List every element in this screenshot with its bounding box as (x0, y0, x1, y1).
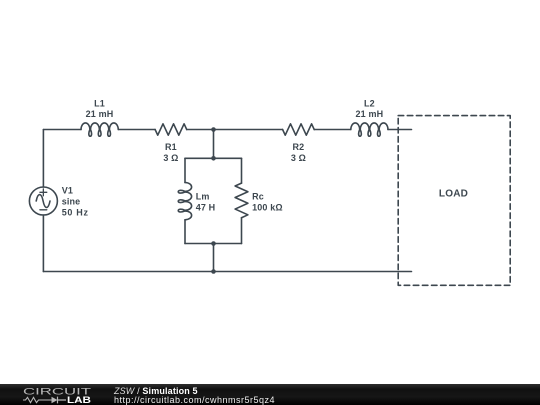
svg-text:LAB: LAB (67, 395, 91, 405)
svg-text:Lm: Lm (196, 191, 210, 201)
svg-text:21 mH: 21 mH (356, 109, 384, 119)
svg-text:sine: sine (62, 197, 81, 207)
svg-text:http://circuitlab.com/cwhnmsr5: http://circuitlab.com/cwhnmsr5r5qz4 (114, 395, 275, 405)
svg-text:L1: L1 (94, 99, 105, 109)
voltage source V1 (29, 187, 57, 215)
svg-text:R2: R2 (292, 142, 304, 152)
svg-text:LOAD: LOAD (439, 189, 468, 200)
junction node bottom rail (211, 269, 216, 274)
V1 minus (40, 209, 47, 211)
combo right vertical upper (241, 158, 243, 183)
node vertical wire top (213, 130, 215, 159)
wire L2 into load box (388, 129, 412, 131)
junction node combo top (211, 156, 216, 161)
parallel combo top wire (185, 157, 242, 159)
combo left vertical lower (184, 220, 186, 244)
LOAD dashed box (398, 116, 510, 286)
svg-text:Rc: Rc (252, 191, 264, 201)
svg-text:L2: L2 (364, 99, 375, 109)
resistor R2 (283, 124, 315, 135)
bottom rail (43, 271, 411, 273)
Rc label (252, 191, 283, 212)
inductor L1 (81, 123, 118, 136)
inductor Lm (178, 183, 191, 220)
svg-text:100 kΩ: 100 kΩ (252, 202, 283, 212)
combo right vertical lower (241, 218, 243, 244)
footer bar (0, 384, 540, 405)
left vertical wire top (42, 130, 44, 188)
node vertical wire bottom (213, 244, 215, 272)
svg-text:47 H: 47 H (196, 202, 216, 212)
wire R1 to R2 through node (187, 129, 283, 131)
Lm label (196, 191, 216, 212)
parallel combo bottom wire (185, 243, 242, 245)
logo resistor zigzag and diode (23, 397, 52, 402)
junction node top (211, 127, 216, 132)
resistor Rc (235, 183, 248, 218)
combo left vertical upper (184, 158, 186, 182)
V1 label (62, 186, 89, 218)
svg-text:50 Hz: 50 Hz (62, 208, 89, 218)
V1 sine (36, 195, 50, 208)
svg-text:3 Ω: 3 Ω (291, 153, 306, 163)
svg-text:3 Ω: 3 Ω (163, 153, 178, 163)
svg-text:V1: V1 (62, 186, 73, 196)
wire R2 to L2 (314, 129, 351, 131)
svg-text:21 mH: 21 mH (86, 109, 114, 119)
resistor R1 (155, 124, 187, 135)
left vertical wire bottom (42, 215, 44, 272)
inductor L2 (351, 123, 388, 136)
V1 plus (40, 189, 47, 196)
wire top-left horizontal (43, 129, 81, 131)
junction node combo bottom (211, 241, 216, 246)
svg-text:R1: R1 (165, 142, 177, 152)
logo diode (52, 397, 58, 403)
wire L1 to R1 (118, 129, 155, 131)
